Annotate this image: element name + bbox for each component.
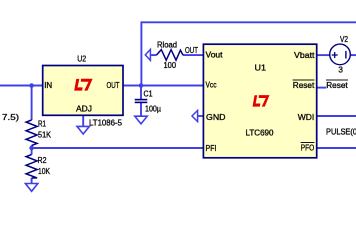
capacitor C1 plates [135, 100, 148, 103]
wire: GND port arrow tail [198, 115, 204, 117]
svg-text:Vbatt: Vbatt [294, 50, 315, 60]
node: junction Vcc net / C1 [139, 83, 144, 88]
wire: input net from left edge to U2 IN pin [0, 85, 43, 87]
svg-text:Vcc: Vcc [206, 80, 218, 90]
svg-text:7.5): 7.5) [2, 112, 19, 122]
logo LT (U2) [74, 79, 92, 91]
svg-text:GND: GND [206, 112, 226, 122]
svg-text:100µ: 100µ [145, 103, 161, 113]
ground: C1 [135, 116, 147, 124]
connector arrow: GND port at U1 [192, 110, 198, 121]
svg-text:R2: R2 [38, 155, 47, 165]
wire: divider tap from input net down to R1 [31, 86, 33, 121]
svg-text:PFO: PFO [301, 143, 315, 153]
wire: U1 Vbatt pin to V2 plus terminal [317, 54, 330, 56]
regulator U2 body [43, 66, 123, 116]
wire: V2 minus terminal to right edge [350, 54, 356, 56]
svg-text:R1: R1 [38, 118, 46, 128]
svg-text:OUT: OUT [107, 80, 120, 90]
wire: WDI net to right edge [317, 115, 356, 117]
wire: Rload arrow tail [150, 54, 156, 56]
svg-text:Vout: Vout [206, 50, 224, 60]
supervisor U1 body [203, 44, 316, 158]
resistor Rload [156, 50, 183, 61]
svg-text:51K: 51K [38, 129, 51, 139]
wire: PFI net from divider junction to U1 PFI pin [32, 147, 203, 149]
wire: PFO net to right edge [317, 147, 356, 149]
svg-text:LT1086-5: LT1086-5 [89, 117, 122, 127]
source V2 battery [330, 44, 351, 65]
node: junction input net / divider [29, 83, 34, 88]
svg-text:IN: IN [44, 80, 52, 90]
ground: U2 ADJ [77, 126, 89, 134]
svg-text:10K: 10K [38, 166, 50, 176]
V2 minus terminal bar [345, 51, 347, 59]
resistor R1 [26, 120, 37, 146]
svg-text:Rload: Rload [157, 40, 177, 50]
svg-text:3: 3 [338, 64, 343, 74]
svg-text:U1: U1 [255, 63, 267, 73]
svg-text:100: 100 [164, 60, 177, 70]
svg-text:LTC690: LTC690 [246, 128, 274, 138]
resistor R2 [26, 155, 37, 179]
svg-text:C1: C1 [144, 89, 153, 99]
connector arrow: Rload left port [145, 49, 150, 60]
wire: top horizontal net to right edge [141, 21, 356, 23]
wire: vertical riser from top net down to Vcc net [140, 22, 142, 86]
svg-text:V2: V2 [340, 34, 348, 44]
svg-text:ADJ: ADJ [76, 103, 92, 113]
logo LT (U1) [253, 95, 270, 107]
svg-text:OUT: OUT [185, 45, 198, 55]
svg-text:U2: U2 [77, 54, 86, 64]
svg-text:Reset: Reset [293, 80, 315, 90]
svg-text:PULSE(0: PULSE(0 [326, 127, 356, 137]
wire: OUT net from Rload to U1 Vout pin [183, 54, 204, 56]
ground: bottom of R2 [25, 184, 37, 192]
V2 plus mark [332, 52, 338, 58]
node: junction R1-R2 / PFI [29, 146, 34, 151]
wire: C1 top lead from Vcc net junction [140, 86, 142, 100]
wire: U2 ADJ pin to ground [82, 115, 84, 126]
wire: C1 bottom lead to ground [140, 103, 142, 116]
svg-text:Reset: Reset [326, 80, 348, 90]
svg-text:WDI: WDI [298, 112, 315, 122]
svg-text:PFI: PFI [206, 143, 217, 153]
wire: Reset pin stub [317, 87, 327, 89]
wire: U2 OUT to U1 Vcc net [124, 85, 204, 87]
wire: R1 bottom through PFI junction to R2 top [31, 146, 33, 155]
wire: R2 bottom to ground [31, 178, 33, 184]
